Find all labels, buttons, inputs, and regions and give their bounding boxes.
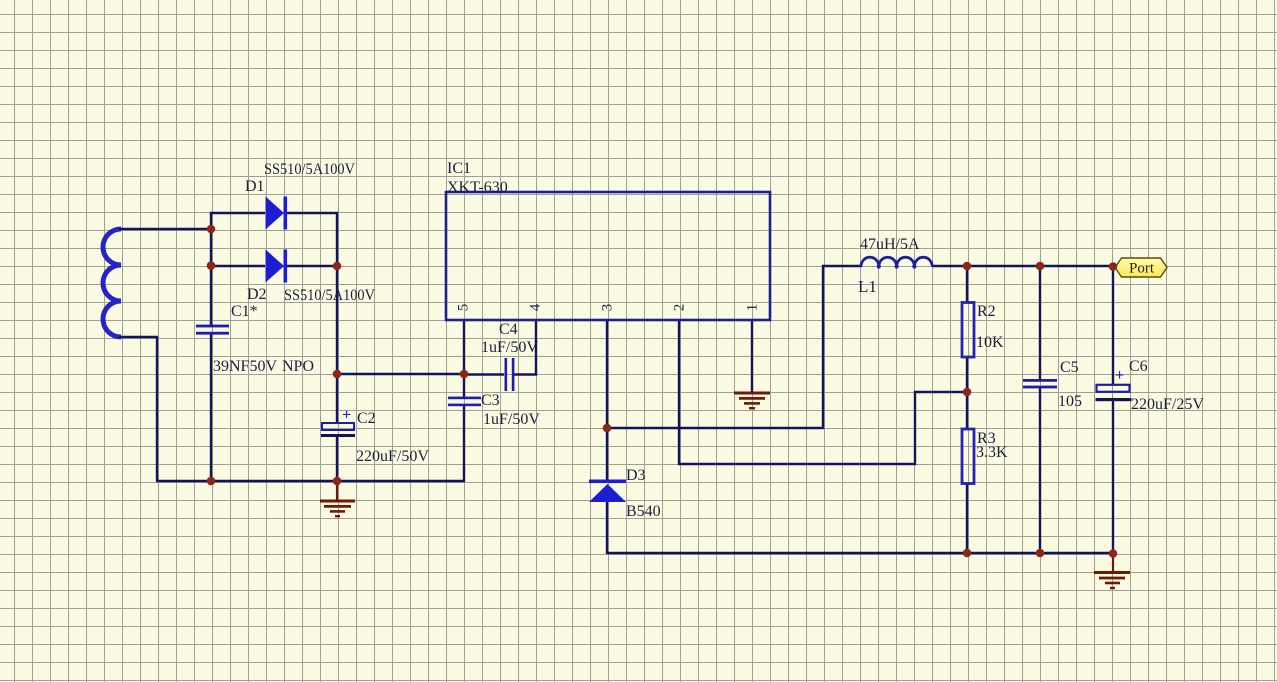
svg-text:105: 105 (1058, 393, 1082, 410)
wire D2 right lead (286, 265, 337, 267)
wire R3 bottom lead (966, 483, 968, 553)
svg-text:3.3K: 3.3K (976, 444, 1008, 461)
capacitor C5 (1023, 379, 1057, 388)
wire pin1 to ground (751, 320, 753, 392)
svg-text:C6: C6 (1129, 358, 1148, 375)
port Port (1115, 258, 1167, 277)
node R2-R3 (963, 388, 972, 397)
node C2 top (333, 370, 342, 379)
svg-text:10K: 10K (976, 334, 1004, 351)
wire D-output vertical to C2 (336, 265, 338, 423)
node R2 top (963, 262, 972, 271)
svg-text:1uF/50V: 1uF/50V (483, 411, 540, 428)
wire C4 left lead (464, 373, 504, 375)
resistor R3 (962, 429, 974, 484)
wire pin3 vertical to D3 (606, 320, 608, 481)
node C3 top (460, 370, 469, 379)
wire C3 lower lead (463, 406, 465, 482)
svg-text:1uF/50V: 1uF/50V (481, 339, 538, 356)
capacitor C6 (electrolytic) (1096, 367, 1132, 401)
node Port (1109, 262, 1118, 271)
svg-text:NPO: NPO (282, 358, 314, 375)
wire coil top to node A (119, 228, 211, 230)
wire pin2 to feedback node (679, 320, 967, 464)
wire C5 top lead (1039, 266, 1041, 380)
wire R2 top lead (966, 266, 968, 303)
svg-text:C1*: C1* (231, 303, 258, 320)
svg-text:D2: D2 (247, 286, 267, 303)
diode D2 (266, 250, 288, 283)
node C6 bottom (1109, 549, 1118, 558)
svg-text:220uF/50V: 220uF/50V (356, 448, 429, 465)
wire bottom-left rail (156, 480, 465, 482)
node pin3 (603, 424, 612, 433)
node D2 right (333, 262, 342, 271)
svg-text:SS510/5A100V: SS510/5A100V (284, 287, 375, 304)
svg-text:IC1: IC1 (447, 160, 471, 177)
svg-text:R2: R2 (977, 303, 996, 320)
diode D3 (589, 480, 626, 503)
node D2 left (207, 261, 216, 270)
svg-text:C3: C3 (481, 392, 500, 409)
node C5 top (1036, 262, 1045, 271)
node C5 bottom (1036, 549, 1045, 558)
inductor L1 (861, 257, 932, 268)
wire bottom-right rail (607, 552, 1113, 554)
svg-text:C4: C4 (499, 321, 518, 338)
svg-text:47uH/5A: 47uH/5A (860, 236, 920, 253)
svg-text:+: + (1115, 367, 1124, 384)
node R3 bottom (963, 549, 972, 558)
wire pin3 node to L1 input (607, 266, 862, 428)
svg-text:SS510/5A100V: SS510/5A100V (264, 161, 355, 178)
wire C2 bottom lead (336, 437, 338, 482)
transformer coil winding (103, 229, 121, 337)
wire C5 bottom lead (1039, 387, 1041, 553)
wire left vertical C1 branch lower (210, 333, 212, 481)
ground bottom right (1094, 554, 1130, 588)
wire D3 bottom lead (606, 502, 608, 554)
svg-text:Port: Port (1129, 261, 1155, 277)
wire coil bottom (119, 337, 157, 481)
wire R3 top lead (966, 392, 968, 429)
svg-text:4: 4 (528, 303, 544, 311)
capacitor C4 (505, 358, 515, 391)
svg-text:L1: L1 (858, 277, 877, 296)
svg-text:5: 5 (456, 304, 472, 312)
wire left vertical C1 branch upper (210, 213, 212, 326)
node D1 left (207, 225, 216, 234)
node rail left (207, 477, 216, 486)
wire C3 upper lead / pin5 stub (463, 320, 465, 399)
ground under C2 (320, 481, 355, 516)
svg-text:B540: B540 (626, 503, 661, 520)
wire C4 right lead to pin4 (514, 320, 536, 375)
wire R2 bottom lead (966, 358, 968, 392)
svg-text:XKT-630: XKT-630 (447, 179, 508, 196)
diode D1 (266, 197, 288, 230)
svg-text:220uF/25V: 220uF/25V (1131, 396, 1204, 413)
capacitor C3 (448, 397, 481, 407)
svg-text:39NF50V: 39NF50V (213, 358, 277, 375)
capacitor C1 (196, 325, 229, 335)
IC U1 body (446, 192, 770, 320)
wire C6 top lead (1112, 266, 1114, 385)
wire node to C3 horizontal (337, 373, 464, 375)
svg-text:D3: D3 (626, 467, 646, 484)
wire D2 left lead (211, 265, 265, 267)
wire C6 bottom lead (1112, 401, 1114, 554)
svg-text:D1: D1 (245, 178, 265, 195)
wire L1 output to Port (932, 265, 1114, 267)
wire D1 right lead (286, 213, 337, 266)
svg-text:C5: C5 (1060, 359, 1079, 376)
svg-text:C2: C2 (357, 410, 376, 427)
capacitor C2 (electrolytic) (321, 407, 355, 438)
svg-text:+: + (342, 407, 351, 424)
ground at pin1 (734, 393, 770, 408)
svg-text:3: 3 (600, 304, 616, 312)
resistor R2 (962, 303, 974, 358)
svg-text:2: 2 (672, 304, 688, 312)
svg-text:1: 1 (745, 304, 761, 312)
wire D1 left lead (211, 213, 265, 214)
node C2 bottom (333, 477, 342, 486)
